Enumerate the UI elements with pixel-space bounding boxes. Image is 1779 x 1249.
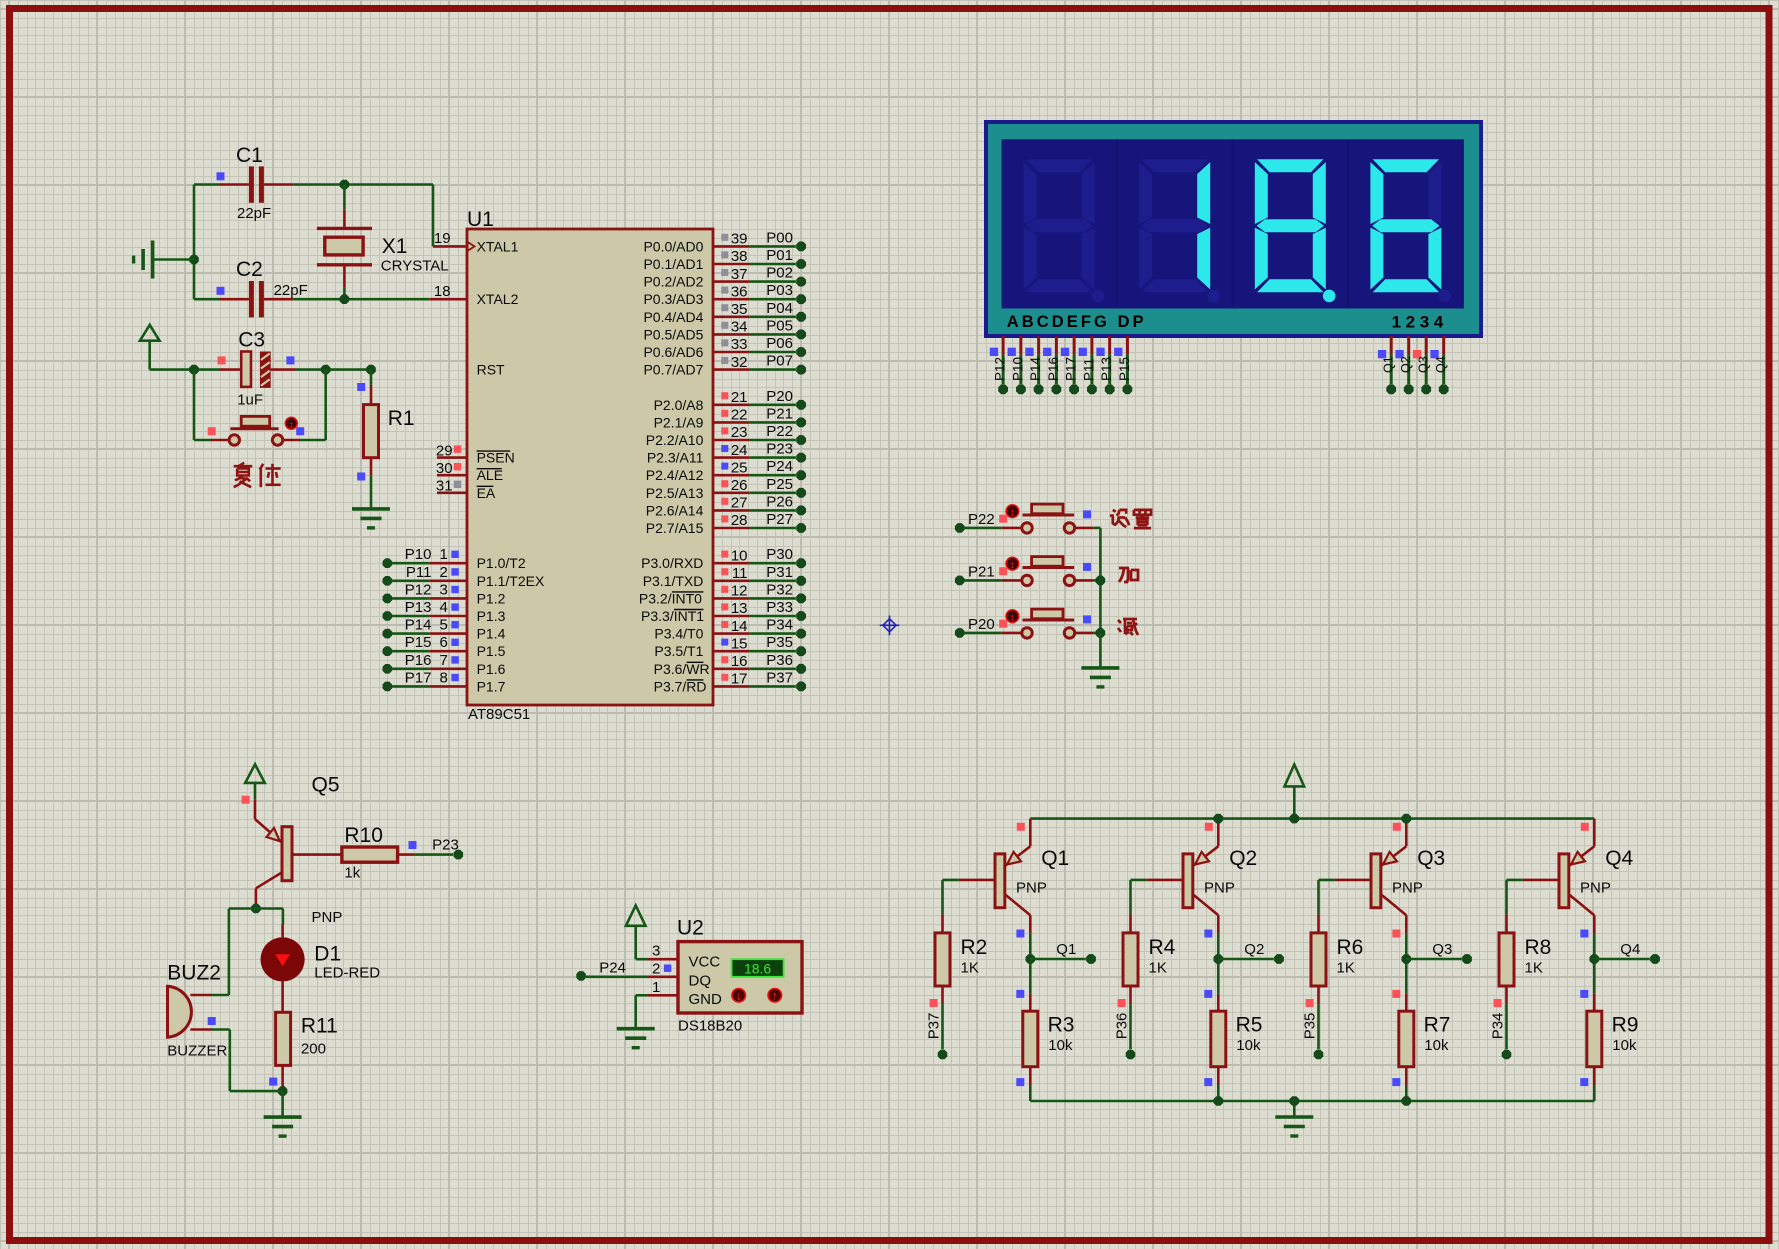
svg-text:R2: R2	[961, 936, 988, 959]
svg-text:38: 38	[731, 248, 748, 265]
svg-text:↓: ↓	[736, 989, 742, 1003]
svg-text:36: 36	[731, 283, 748, 300]
svg-text:VCC: VCC	[689, 953, 721, 970]
svg-text:Q4: Q4	[1605, 847, 1633, 870]
svg-text:1234: 1234	[1392, 313, 1448, 332]
svg-text:12: 12	[731, 583, 748, 600]
svg-text:BUZ2: BUZ2	[167, 962, 221, 985]
svg-text:15: 15	[731, 635, 748, 652]
svg-text:RST: RST	[477, 362, 505, 378]
svg-text:Q2: Q2	[1229, 847, 1257, 870]
svg-text:35: 35	[731, 301, 748, 318]
svg-text:PNP: PNP	[1392, 880, 1423, 897]
svg-text:P0.7/AD7: P0.7/AD7	[643, 362, 703, 378]
svg-text:18: 18	[434, 283, 451, 300]
svg-text:P21: P21	[766, 405, 793, 422]
svg-text:P20: P20	[968, 616, 995, 633]
svg-text:26: 26	[731, 477, 748, 494]
svg-text:1K: 1K	[1149, 959, 1167, 976]
svg-text:P06: P06	[766, 335, 793, 352]
svg-text:P02: P02	[766, 265, 793, 282]
svg-text:P11: P11	[1081, 358, 1096, 381]
svg-text:4: 4	[439, 599, 447, 616]
svg-text:6: 6	[439, 634, 447, 651]
svg-text:P12: P12	[405, 581, 432, 598]
svg-text:P23: P23	[432, 837, 459, 854]
svg-text:1k: 1k	[344, 864, 360, 881]
svg-text:Q3: Q3	[1417, 847, 1445, 870]
svg-text:R3: R3	[1048, 1014, 1075, 1037]
svg-text:GND: GND	[689, 991, 723, 1008]
svg-text:P3.2/INT0: P3.2/INT0	[639, 590, 702, 606]
svg-text:R5: R5	[1236, 1014, 1263, 1037]
svg-text:29: 29	[436, 442, 453, 459]
svg-text:P13: P13	[1099, 357, 1114, 381]
svg-text:R11: R11	[301, 1014, 338, 1037]
svg-text:P0.0/AD0: P0.0/AD0	[643, 238, 703, 254]
svg-text:39: 39	[731, 231, 748, 248]
svg-text:P2.0/A8: P2.0/A8	[654, 397, 704, 413]
svg-text:P05: P05	[766, 317, 793, 334]
svg-text:P3.6/WR: P3.6/WR	[654, 661, 710, 677]
svg-text:P2.5/A13: P2.5/A13	[646, 485, 704, 501]
svg-text:13: 13	[731, 600, 748, 617]
svg-text:3: 3	[439, 581, 447, 598]
svg-text:P3.0/RXD: P3.0/RXD	[641, 555, 703, 571]
svg-text:P22: P22	[968, 511, 995, 528]
svg-text:P01: P01	[766, 247, 793, 264]
svg-text:P0.3/AD3: P0.3/AD3	[643, 291, 703, 307]
svg-text:P0.4/AD4: P0.4/AD4	[643, 309, 703, 325]
svg-text:↕: ↕	[1010, 560, 1015, 571]
svg-text:P10: P10	[405, 546, 432, 563]
svg-text:P36: P36	[766, 652, 793, 669]
svg-text:P1.2: P1.2	[477, 590, 506, 606]
svg-text:P35: P35	[1302, 1013, 1319, 1040]
svg-text:P34: P34	[766, 617, 793, 634]
svg-text:P1.7: P1.7	[477, 678, 506, 694]
svg-text:Q3: Q3	[1432, 941, 1452, 958]
svg-text:Q5: Q5	[312, 774, 340, 797]
svg-text:P0.5/AD5: P0.5/AD5	[643, 326, 703, 342]
svg-text:P13: P13	[405, 599, 432, 616]
svg-text:P0.1/AD1: P0.1/AD1	[643, 256, 703, 272]
svg-text:16: 16	[731, 653, 748, 670]
svg-text:C3: C3	[238, 329, 265, 352]
svg-text:P1.4: P1.4	[477, 626, 506, 642]
svg-text:P24: P24	[599, 959, 626, 976]
svg-text:P3.7/RD: P3.7/RD	[654, 678, 707, 694]
svg-text:P11: P11	[406, 564, 432, 581]
svg-text:22: 22	[731, 407, 748, 424]
svg-text:P1.6: P1.6	[477, 661, 506, 677]
svg-text:1uF: 1uF	[237, 392, 263, 409]
svg-text:3: 3	[652, 943, 660, 960]
svg-text:P1.0/T2: P1.0/T2	[477, 555, 526, 571]
svg-text:P16: P16	[405, 652, 432, 669]
svg-text:Q4: Q4	[1434, 356, 1448, 373]
svg-text:P23: P23	[766, 441, 793, 458]
svg-text:22pF: 22pF	[274, 282, 308, 299]
svg-text:P2.4/A12: P2.4/A12	[646, 467, 704, 483]
svg-text:P27: P27	[766, 511, 793, 528]
svg-text:P07: P07	[766, 353, 793, 370]
svg-text:P31: P31	[766, 564, 793, 581]
svg-text:R1: R1	[388, 407, 415, 430]
svg-text:DS18B20: DS18B20	[678, 1018, 742, 1035]
svg-text:P1.5: P1.5	[477, 643, 506, 659]
svg-text:Q2: Q2	[1244, 941, 1264, 958]
svg-text:P1.3: P1.3	[477, 608, 506, 624]
svg-text:P37: P37	[766, 669, 793, 686]
svg-text:PNP: PNP	[1204, 880, 1235, 897]
svg-text:P20: P20	[766, 388, 793, 405]
svg-text:R8: R8	[1525, 936, 1552, 959]
svg-text:P12: P12	[993, 357, 1008, 381]
svg-text:P2.7/A15: P2.7/A15	[646, 520, 704, 536]
svg-text:P35: P35	[766, 634, 793, 651]
svg-text:33: 33	[731, 336, 748, 353]
svg-text:↑: ↑	[772, 989, 778, 1003]
svg-text:U1: U1	[467, 208, 494, 231]
svg-text:U2: U2	[677, 917, 704, 940]
svg-text:11: 11	[732, 565, 748, 582]
svg-text:P33: P33	[766, 599, 793, 616]
svg-text:P15: P15	[405, 634, 432, 651]
svg-text:7: 7	[439, 652, 447, 669]
svg-text:1K: 1K	[1525, 959, 1543, 976]
svg-text:27: 27	[731, 495, 748, 512]
svg-text:C2: C2	[236, 258, 263, 281]
svg-text:P1.1/T2EX: P1.1/T2EX	[477, 573, 545, 589]
svg-text:2: 2	[652, 960, 660, 977]
svg-text:Q3: Q3	[1417, 356, 1431, 373]
svg-text:Q1: Q1	[1041, 847, 1069, 870]
svg-text:24: 24	[731, 442, 748, 459]
svg-text:P26: P26	[766, 493, 793, 510]
svg-text:31: 31	[436, 478, 453, 495]
svg-text:P17: P17	[1064, 357, 1079, 381]
svg-text:PNP: PNP	[1580, 880, 1611, 897]
svg-text:32: 32	[731, 354, 748, 371]
svg-text:19: 19	[434, 230, 451, 247]
svg-text:P37: P37	[926, 1013, 943, 1040]
svg-text:D1: D1	[314, 942, 341, 965]
svg-text:37: 37	[731, 266, 748, 283]
svg-text:R6: R6	[1337, 936, 1364, 959]
svg-text:P30: P30	[766, 546, 793, 563]
svg-text:25: 25	[731, 459, 748, 476]
svg-text:Q4: Q4	[1620, 941, 1640, 958]
svg-text:P3.5/T1: P3.5/T1	[654, 643, 703, 659]
svg-text:P10: P10	[1010, 357, 1025, 381]
svg-text:P36: P36	[1114, 1013, 1131, 1040]
svg-text:PSEN: PSEN	[477, 450, 515, 466]
svg-text:200: 200	[301, 1041, 326, 1058]
svg-text:BUZZER: BUZZER	[167, 1043, 227, 1060]
svg-text:C1: C1	[236, 144, 263, 167]
svg-text:10k: 10k	[1236, 1037, 1261, 1054]
svg-text:P0.6/AD6: P0.6/AD6	[643, 344, 703, 360]
svg-text:1K: 1K	[961, 959, 979, 976]
svg-text:10: 10	[731, 547, 748, 564]
svg-text:R4: R4	[1149, 936, 1176, 959]
svg-text:23: 23	[731, 424, 748, 441]
svg-text:DQ: DQ	[689, 973, 712, 990]
svg-text:2: 2	[439, 564, 447, 581]
svg-text:P00: P00	[766, 229, 793, 246]
svg-text:Q2: Q2	[1399, 356, 1413, 373]
svg-text:↕: ↕	[1010, 508, 1015, 519]
svg-text:AT89C51: AT89C51	[468, 706, 530, 723]
svg-text:P3.1/TXD: P3.1/TXD	[643, 573, 704, 589]
svg-text:P25: P25	[766, 476, 793, 493]
svg-text:14: 14	[731, 618, 748, 635]
svg-text:10k: 10k	[1048, 1037, 1073, 1054]
svg-text:X1: X1	[382, 235, 408, 258]
svg-text:LED-RED: LED-RED	[314, 965, 380, 982]
svg-text:21: 21	[731, 389, 748, 406]
svg-text:P21: P21	[968, 564, 995, 581]
svg-text:P17: P17	[405, 669, 432, 686]
svg-text:ABCDEFG DP: ABCDEFG DP	[1007, 313, 1147, 331]
svg-text:P04: P04	[766, 300, 793, 317]
svg-text:P2.6/A14: P2.6/A14	[646, 502, 704, 518]
svg-text:8: 8	[439, 669, 447, 686]
svg-text:P32: P32	[766, 581, 793, 598]
svg-text:P14: P14	[405, 617, 432, 634]
svg-text:P2.1/A9: P2.1/A9	[654, 414, 704, 430]
svg-text:28: 28	[731, 512, 748, 529]
svg-text:1K: 1K	[1337, 959, 1355, 976]
svg-text:17: 17	[731, 671, 748, 688]
svg-text:P2.2/A10: P2.2/A10	[646, 432, 704, 448]
svg-text:↕: ↕	[289, 420, 294, 430]
svg-text:30: 30	[436, 460, 453, 477]
svg-text:5: 5	[439, 617, 447, 634]
svg-text:P0.2/AD2: P0.2/AD2	[643, 274, 703, 290]
svg-text:P34: P34	[1490, 1013, 1507, 1040]
svg-text:P3.3/INT1: P3.3/INT1	[641, 608, 704, 624]
svg-text:P15: P15	[1117, 357, 1132, 381]
svg-text:CRYSTAL: CRYSTAL	[381, 258, 449, 275]
svg-text:10k: 10k	[1424, 1037, 1449, 1054]
svg-text:↕: ↕	[1010, 613, 1015, 624]
svg-text:34: 34	[731, 319, 748, 336]
svg-text:1: 1	[652, 979, 660, 996]
svg-text:XTAL1: XTAL1	[477, 238, 519, 254]
svg-text:XTAL2: XTAL2	[477, 291, 519, 307]
svg-text:18.6: 18.6	[744, 961, 771, 977]
svg-text:PNP: PNP	[312, 909, 343, 926]
svg-text:Q1: Q1	[1056, 941, 1076, 958]
svg-text:P2.3/A11: P2.3/A11	[647, 450, 704, 466]
svg-text:P22: P22	[766, 423, 793, 440]
svg-text:R10: R10	[344, 824, 383, 847]
svg-text:EA: EA	[477, 485, 496, 501]
svg-text:P16: P16	[1046, 357, 1061, 381]
svg-text:R7: R7	[1424, 1014, 1451, 1037]
svg-text:ALE: ALE	[477, 467, 503, 483]
svg-text:P3.4/T0: P3.4/T0	[654, 626, 703, 642]
svg-text:P03: P03	[766, 282, 793, 299]
svg-text:R9: R9	[1612, 1014, 1639, 1037]
svg-text:P24: P24	[766, 458, 793, 475]
svg-text:1: 1	[439, 546, 447, 563]
svg-text:PNP: PNP	[1016, 880, 1047, 897]
svg-text:10k: 10k	[1612, 1037, 1637, 1054]
svg-text:22pF: 22pF	[237, 205, 271, 222]
svg-text:P14: P14	[1028, 356, 1043, 381]
svg-text:Q1: Q1	[1382, 356, 1396, 373]
